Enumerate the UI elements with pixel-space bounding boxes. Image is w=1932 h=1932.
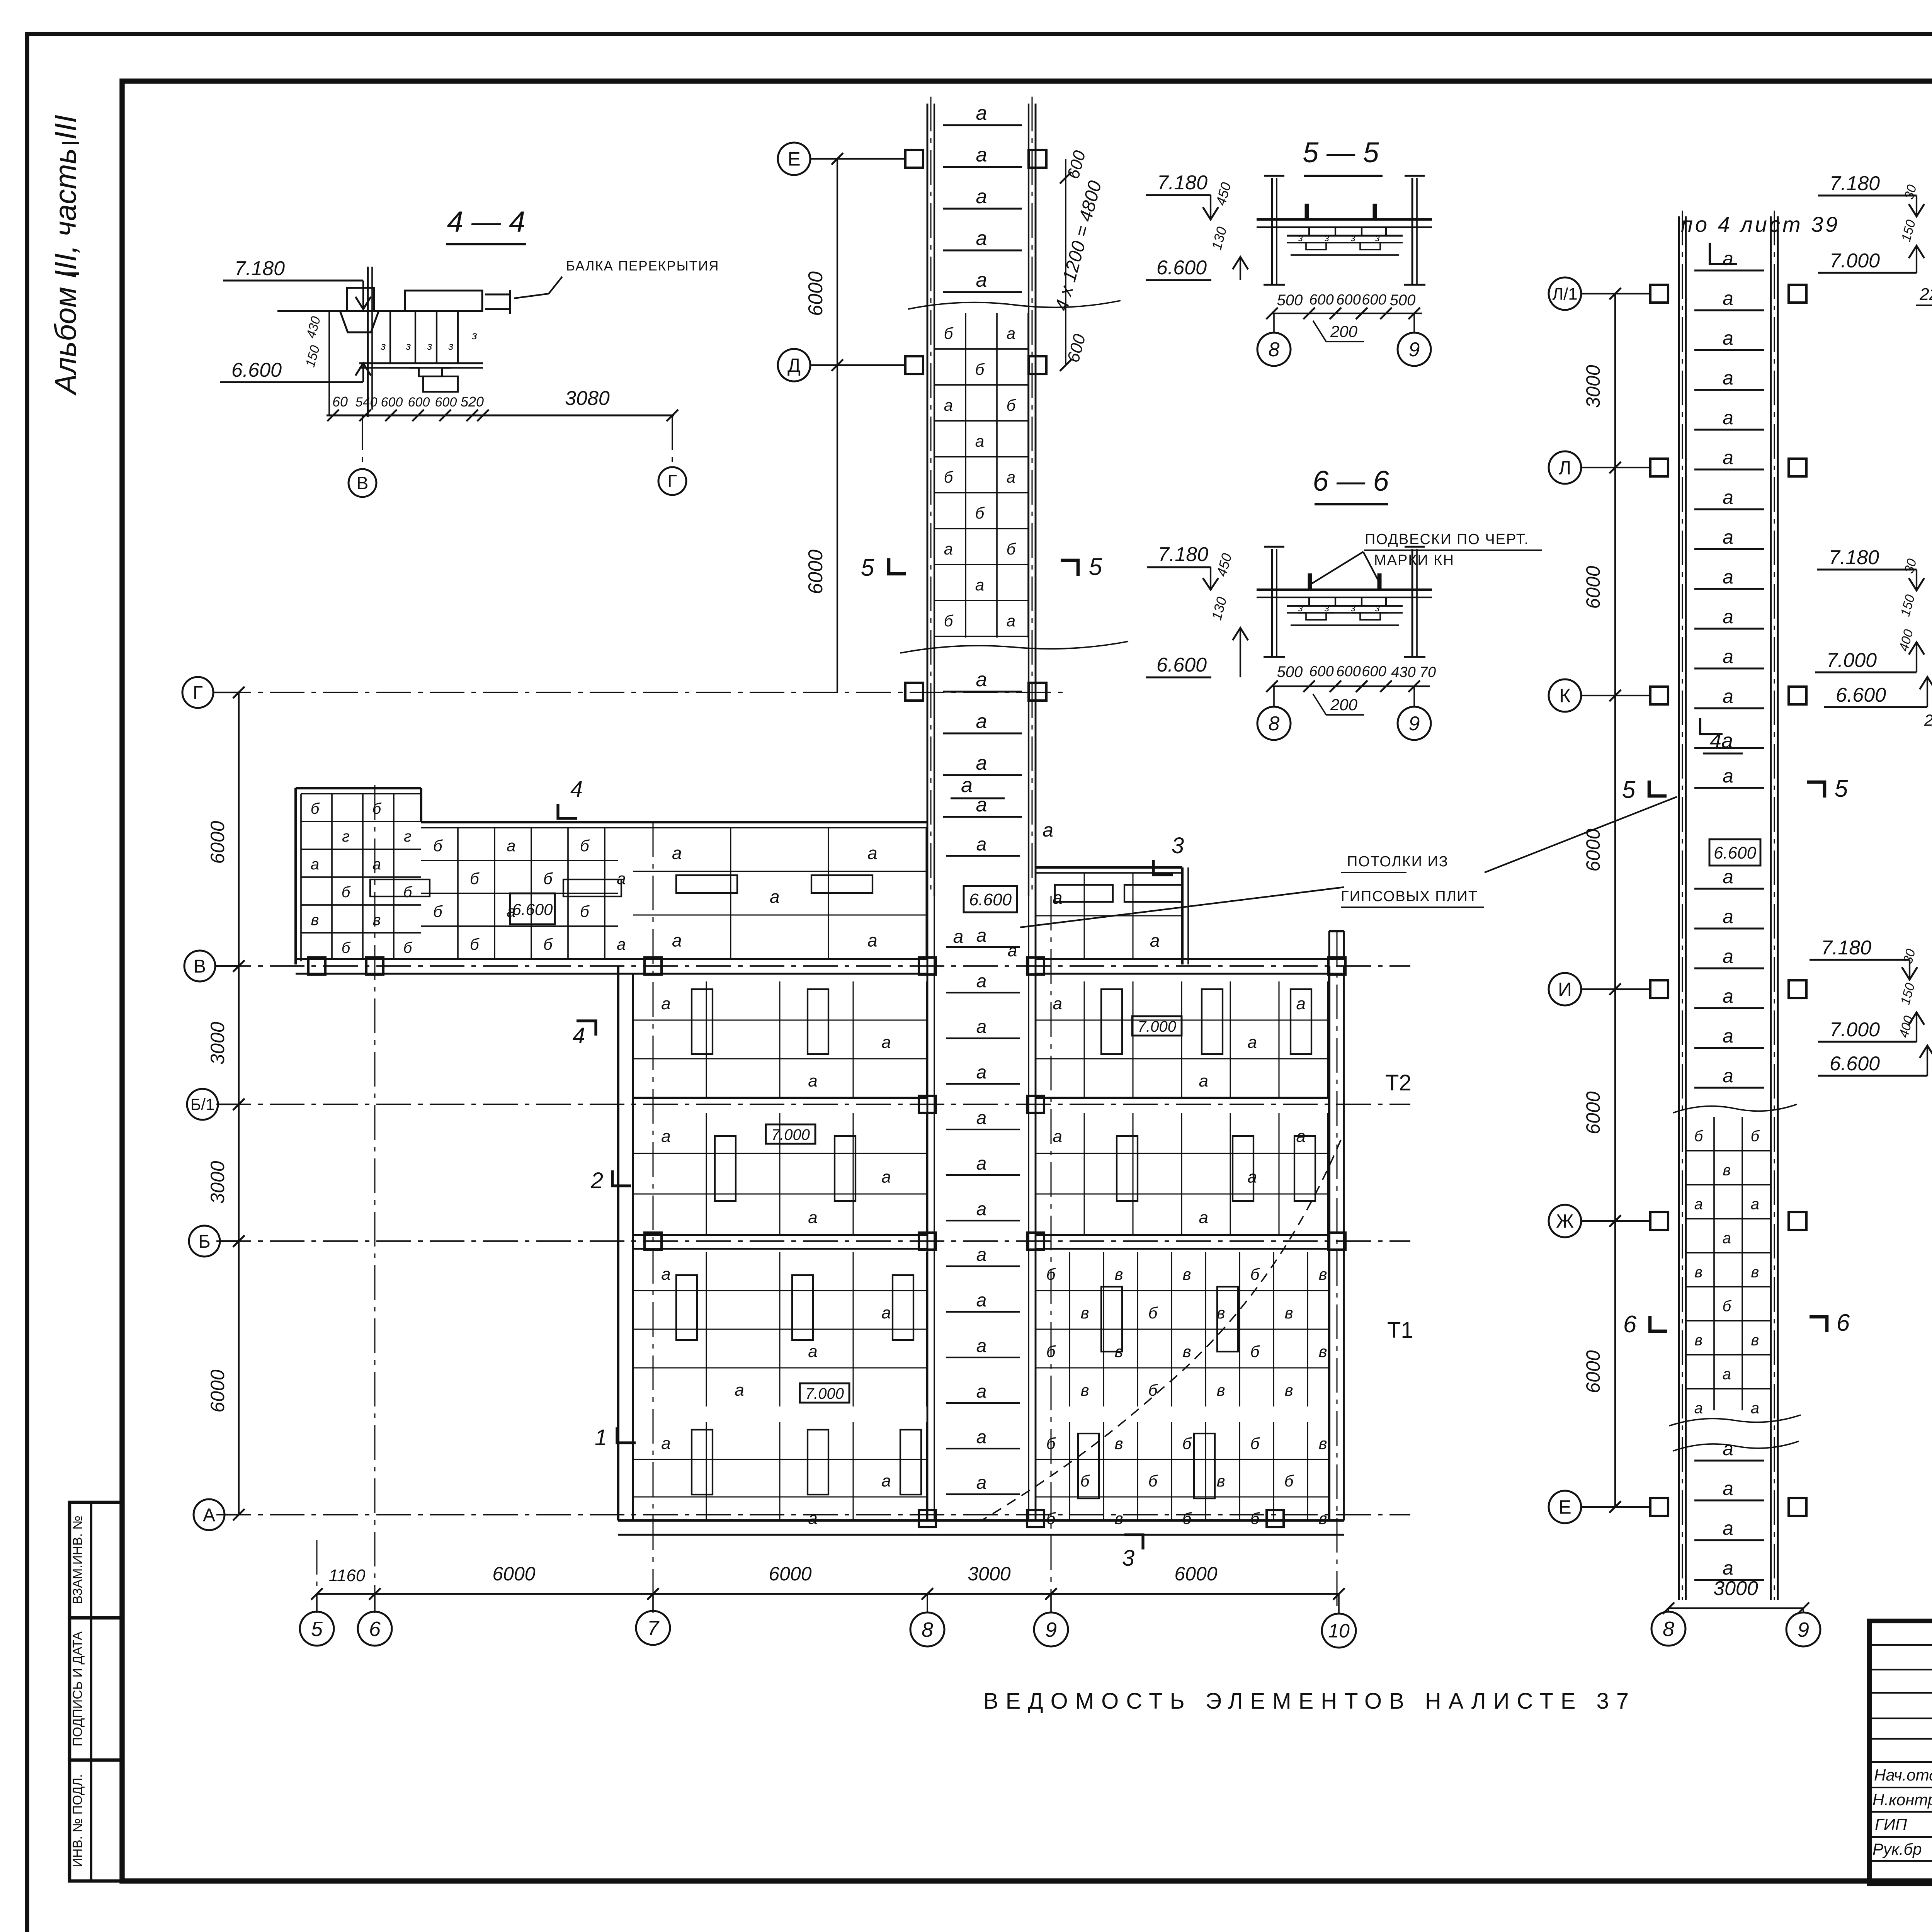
svg-text:по 4 лист 39: по 4 лист 39 bbox=[1681, 212, 1840, 236]
right corridor strip dense tile block bbox=[1669, 1104, 1801, 1426]
svg-text:220: 220 bbox=[1924, 711, 1932, 729]
svg-text:б: б bbox=[1148, 1304, 1158, 1322]
svg-text:6.600: 6.600 bbox=[1156, 257, 1207, 279]
plan room band bottom tiles bbox=[633, 1422, 1329, 1528]
svg-text:7.180: 7.180 bbox=[1158, 543, 1208, 566]
grid bubble Л bbox=[1549, 451, 1650, 484]
section 4-4 title bbox=[446, 206, 526, 244]
svg-text:Л: Л bbox=[1559, 457, 1571, 479]
plan upper-right wing outline bbox=[1036, 867, 1188, 964]
plan break line diagonal bbox=[981, 1140, 1341, 1520]
grid bubble И bbox=[1549, 973, 1650, 1005]
svg-text:600: 600 bbox=[435, 395, 457, 410]
section 4-4 grid bubble В bbox=[349, 415, 376, 497]
svg-text:600: 600 bbox=[1336, 292, 1361, 308]
svg-text:б: б bbox=[1046, 1265, 1056, 1283]
svg-text:в: в bbox=[1183, 1342, 1191, 1361]
svg-text:600: 600 bbox=[381, 395, 403, 410]
svg-text:а: а bbox=[1723, 985, 1733, 1007]
svg-text:а: а bbox=[867, 930, 878, 950]
svg-text:а: а bbox=[1694, 1196, 1703, 1213]
svg-text:а: а bbox=[1008, 941, 1017, 960]
svg-text:б: б bbox=[1182, 1509, 1192, 1527]
svg-text:а: а bbox=[1723, 367, 1733, 389]
svg-text:б: б bbox=[1148, 1381, 1158, 1399]
svg-text:в: в bbox=[311, 912, 319, 929]
section cut mark 6 right bbox=[1810, 1310, 1850, 1336]
svg-text:8: 8 bbox=[1269, 338, 1280, 361]
svg-text:а: а bbox=[808, 1208, 817, 1227]
svg-text:430: 430 bbox=[1391, 664, 1415, 680]
plan corridor letter a top bbox=[951, 774, 1005, 798]
plan left grid bubble А bbox=[194, 1499, 245, 1530]
plan column markers bbox=[308, 957, 1345, 1527]
svg-text:5: 5 bbox=[1622, 777, 1636, 803]
section 5-5 drawing bbox=[1208, 176, 1432, 285]
svg-text:г: г bbox=[404, 828, 412, 845]
svg-text:5: 5 bbox=[311, 1617, 323, 1641]
plan axis 10 vertical line bbox=[1336, 931, 1337, 1613]
svg-text:б: б bbox=[944, 324, 954, 342]
plan bottom wall bbox=[618, 1520, 1344, 1535]
label - Потолки из гипсовых плит bbox=[1020, 797, 1677, 927]
section cut mark 5 left on right strip bbox=[1622, 777, 1667, 803]
svg-text:а: а bbox=[1723, 1557, 1733, 1579]
svg-text:а: а bbox=[976, 925, 987, 946]
svg-text:а: а bbox=[1723, 327, 1733, 349]
plan ceiling slots bbox=[370, 879, 1315, 1498]
right strip column markers bbox=[1650, 285, 1806, 1516]
section 4-4 label - Балка перекрытия bbox=[514, 259, 719, 298]
svg-text:б: б bbox=[543, 935, 553, 953]
section 2-2 dimension row 1 bbox=[1924, 709, 1932, 774]
plan corridor tile rows bbox=[946, 834, 1020, 1494]
svg-text:Г: Г bbox=[668, 471, 677, 491]
svg-text:а: а bbox=[1723, 1230, 1731, 1247]
section 6-6 elevation 7.180 bbox=[1147, 543, 1235, 590]
plan axis 6 vertical line bbox=[374, 785, 375, 1613]
svg-text:а: а bbox=[976, 1427, 987, 1447]
plan section cut 2 right bbox=[1385, 1070, 1412, 1095]
svg-text:6000: 6000 bbox=[207, 1369, 228, 1412]
svg-text:в: в bbox=[1723, 1162, 1731, 1179]
right corridor strip walls bbox=[1679, 216, 1778, 1600]
svg-text:Г: Г bbox=[193, 683, 203, 703]
svg-text:б: б bbox=[1046, 1509, 1056, 1527]
svg-text:а: а bbox=[770, 886, 780, 906]
svg-text:а: а bbox=[867, 843, 878, 863]
svg-text:в: в bbox=[1319, 1434, 1327, 1452]
svg-text:в: в bbox=[1115, 1509, 1123, 1527]
svg-text:ПОТОЛКИ ИЗ: ПОТОЛКИ ИЗ bbox=[1347, 854, 1449, 870]
svg-text:б: б bbox=[1046, 1342, 1056, 1361]
svg-text:а: а bbox=[944, 540, 953, 558]
svg-text:6.600: 6.600 bbox=[969, 890, 1012, 909]
section 4-4 grid bubble Г bbox=[658, 415, 686, 495]
svg-text:б: б bbox=[433, 837, 443, 855]
svg-text:а: а bbox=[976, 1062, 987, 1083]
svg-text:8: 8 bbox=[1663, 1617, 1674, 1641]
svg-text:БАЛКА ПЕРЕКРЫТИЯ: БАЛКА ПЕРЕКРЫТИЯ bbox=[566, 259, 719, 274]
svg-text:а: а bbox=[1723, 685, 1733, 707]
section 4-4 drawing bbox=[277, 267, 510, 417]
svg-text:Ж: Ж bbox=[1556, 1211, 1574, 1232]
svg-text:10: 10 bbox=[1328, 1620, 1350, 1642]
svg-text:в: в bbox=[1217, 1472, 1225, 1490]
svg-text:9: 9 bbox=[1409, 713, 1420, 735]
svg-text:8: 8 bbox=[1269, 713, 1280, 735]
svg-text:Т2: Т2 bbox=[1385, 1070, 1412, 1095]
svg-text:а: а bbox=[976, 794, 987, 816]
section 5-5 grid bubble 9 bbox=[1398, 313, 1431, 366]
svg-text:3000: 3000 bbox=[207, 1022, 228, 1065]
svg-text:7.000: 7.000 bbox=[771, 1126, 810, 1143]
svg-text:б: б bbox=[1182, 1434, 1192, 1452]
svg-text:б: б bbox=[470, 935, 480, 953]
svg-text:б: б bbox=[311, 800, 320, 817]
svg-text:а: а bbox=[976, 1245, 987, 1265]
svg-text:а: а bbox=[976, 102, 987, 124]
svg-text:б: б bbox=[944, 468, 954, 486]
svg-text:3000: 3000 bbox=[207, 1161, 228, 1204]
svg-text:В: В bbox=[357, 473, 369, 493]
section 6-6 grid bubble 8 bbox=[1257, 686, 1291, 740]
section 1-1 elevation 7.180 bbox=[1818, 172, 1924, 216]
section cut mark 5 right bbox=[1061, 554, 1102, 580]
svg-text:в: в bbox=[1694, 1264, 1702, 1281]
svg-text:7.180: 7.180 bbox=[1821, 937, 1871, 959]
svg-text:а: а bbox=[1751, 1400, 1759, 1417]
svg-text:6000: 6000 bbox=[1582, 1091, 1604, 1134]
section 3-3 elevation 6.600 bbox=[1818, 1046, 1932, 1076]
svg-text:з: з bbox=[1350, 602, 1355, 614]
svg-text:з: з bbox=[380, 340, 386, 352]
section 2-2 elevation 7.180 bbox=[1817, 546, 1924, 590]
plan section cut 2 left bbox=[590, 1168, 631, 1193]
svg-text:в: в bbox=[1285, 1304, 1293, 1322]
section 6-6 grid bubble 9 bbox=[1398, 686, 1431, 740]
svg-text:Д: Д bbox=[787, 355, 801, 376]
grid bubble К bbox=[1549, 679, 1650, 712]
svg-text:а: а bbox=[1723, 906, 1733, 927]
plan corridor junction box 6.600 bbox=[953, 819, 1053, 960]
svg-text:а: а bbox=[1296, 994, 1305, 1013]
svg-text:1: 1 bbox=[595, 1425, 607, 1450]
svg-text:в: в bbox=[1694, 1332, 1702, 1349]
svg-text:б: б bbox=[1751, 1128, 1760, 1145]
plan bottom dimension row bbox=[311, 1563, 1345, 1600]
svg-text:а: а bbox=[976, 710, 987, 733]
top corridor strip dense tile block bbox=[900, 301, 1128, 653]
svg-text:6.600: 6.600 bbox=[1836, 684, 1886, 706]
plan room band Б/1-Б tiles bbox=[633, 1113, 1329, 1235]
svg-text:3: 3 bbox=[1122, 1546, 1134, 1571]
svg-text:ГИП: ГИП bbox=[1875, 1815, 1907, 1833]
section 6-6 elevation 6.600 bbox=[1146, 628, 1248, 677]
plan corridor vertical walls bbox=[927, 896, 1036, 1520]
svg-text:а: а bbox=[1007, 324, 1015, 342]
section 5-5 elevation 7.180 bbox=[1146, 172, 1234, 219]
svg-text:в: в bbox=[1081, 1381, 1089, 1399]
svg-text:б: б bbox=[1250, 1509, 1260, 1527]
top corridor strip axis lines bbox=[931, 97, 1032, 896]
svg-text:в: в bbox=[1319, 1265, 1327, 1283]
right strip grid bubble 9 bottom bbox=[1786, 1608, 1820, 1646]
svg-text:Е: Е bbox=[787, 148, 800, 170]
svg-text:а: а bbox=[976, 1199, 987, 1219]
svg-text:6: 6 bbox=[369, 1617, 381, 1641]
svg-text:б: б bbox=[372, 800, 382, 817]
plan left grid bubble Б/1 bbox=[187, 1089, 245, 1120]
section 4-4 elevation 6.600 bbox=[220, 359, 371, 382]
svg-text:б: б bbox=[1694, 1128, 1704, 1145]
right strip break line bbox=[1673, 1441, 1799, 1451]
section 6-6 drawing bbox=[1208, 547, 1432, 657]
svg-text:б: б bbox=[470, 869, 480, 888]
svg-text:б: б bbox=[342, 939, 351, 956]
svg-text:з: з bbox=[1324, 602, 1329, 614]
svg-text:а: а bbox=[507, 837, 515, 855]
svg-text:б: б bbox=[342, 884, 351, 901]
svg-text:а: а bbox=[1723, 447, 1733, 468]
svg-text:а: а bbox=[661, 1265, 670, 1284]
svg-text:ВЕДОМОСТЬ ЭЛЕМЕНТОВ НАЛИСТЕ: ВЕДОМОСТЬ ЭЛЕМЕНТОВ НАЛИСТЕ 37 bbox=[983, 1689, 1636, 1714]
top strip vertical dimension 6000 bbox=[804, 159, 837, 692]
svg-text:з: з bbox=[427, 340, 432, 352]
svg-text:ПОДПИСЬ И ДАТА: ПОДПИСЬ И ДАТА bbox=[70, 1631, 85, 1747]
svg-text:200: 200 bbox=[1330, 696, 1358, 714]
svg-text:а: а bbox=[976, 1473, 987, 1493]
svg-text:а: а bbox=[976, 834, 987, 855]
svg-text:а: а bbox=[975, 432, 984, 450]
svg-text:а: а bbox=[1247, 1168, 1257, 1187]
svg-text:6000: 6000 bbox=[207, 821, 228, 864]
section 4-4 dimension row bbox=[327, 387, 678, 421]
right strip bottom dimension 3000 bbox=[1663, 1577, 1809, 1614]
plan axis Б line bbox=[216, 1240, 1410, 1242]
svg-text:70: 70 bbox=[1420, 664, 1436, 680]
svg-text:а: а bbox=[1053, 1127, 1062, 1146]
svg-text:б: б bbox=[1046, 1434, 1056, 1452]
svg-text:6000: 6000 bbox=[1582, 828, 1604, 871]
svg-text:МАРКИ КН: МАРКИ КН bbox=[1374, 552, 1454, 568]
svg-text:в: в bbox=[1319, 1342, 1327, 1361]
top corridor strip walls bbox=[927, 104, 1036, 896]
svg-text:а: а bbox=[976, 752, 987, 774]
svg-text:7.000: 7.000 bbox=[1138, 1018, 1176, 1035]
svg-text:а: а bbox=[1247, 1033, 1257, 1052]
svg-text:а: а bbox=[976, 227, 987, 250]
svg-text:7.180: 7.180 bbox=[1829, 546, 1879, 569]
svg-text:з: з bbox=[405, 340, 411, 352]
svg-text:а: а bbox=[881, 1303, 891, 1322]
svg-text:б: б bbox=[1250, 1265, 1260, 1283]
svg-text:6000: 6000 bbox=[804, 271, 827, 316]
svg-text:60: 60 bbox=[332, 394, 348, 410]
section 2-2 elevation 6.600 bbox=[1824, 677, 1932, 707]
note - Ведомость элементов на листе 37 bbox=[983, 1689, 1636, 1714]
svg-text:а: а bbox=[1723, 866, 1733, 888]
svg-text:а: а bbox=[976, 1381, 987, 1402]
section 3-3 elevation 7.180 bbox=[1810, 937, 1918, 980]
svg-text:3: 3 bbox=[1172, 833, 1184, 858]
svg-text:а: а bbox=[976, 185, 987, 208]
svg-text:а: а bbox=[311, 856, 319, 873]
svg-text:б: б bbox=[580, 837, 590, 855]
plan main walls left and right bbox=[618, 966, 1344, 1520]
svg-text:а: а bbox=[372, 856, 381, 873]
svg-text:600: 600 bbox=[1309, 292, 1333, 308]
plan elevation box 7.000 first bbox=[1132, 1016, 1182, 1036]
svg-text:6000: 6000 bbox=[1582, 566, 1604, 609]
section 6-6 label - Подвески по черт Марки КН bbox=[1311, 531, 1542, 584]
svg-text:7.000: 7.000 bbox=[805, 1385, 844, 1402]
top corridor strip tile rows lower bbox=[943, 668, 1022, 817]
left margin stamp boxes bbox=[70, 1502, 122, 1881]
svg-text:6000: 6000 bbox=[1174, 1563, 1217, 1585]
svg-text:а: а bbox=[1723, 1438, 1733, 1459]
svg-text:Б/1: Б/1 bbox=[190, 1095, 215, 1114]
svg-text:а: а bbox=[1723, 566, 1733, 588]
svg-text:500: 500 bbox=[1390, 292, 1416, 309]
svg-text:200: 200 bbox=[1330, 322, 1358, 340]
svg-text:4: 4 bbox=[570, 777, 583, 802]
svg-text:6 — 6: 6 — 6 bbox=[1313, 465, 1389, 497]
svg-text:в: в bbox=[373, 912, 381, 929]
plan upper-left wing outline bbox=[296, 788, 927, 964]
plan left grid bubble Г bbox=[182, 677, 245, 708]
label - по 4 лист 39 bbox=[1681, 212, 1840, 264]
plan axis Г line bbox=[216, 692, 1066, 693]
svg-text:а: а bbox=[808, 1071, 817, 1090]
svg-text:а: а bbox=[976, 1017, 987, 1037]
svg-text:5: 5 bbox=[861, 554, 874, 581]
svg-text:а: а bbox=[976, 1336, 987, 1356]
svg-text:б: б bbox=[403, 939, 413, 956]
plan grid bubble 7 bbox=[636, 1594, 670, 1645]
plan band over В right part rows bbox=[633, 828, 927, 959]
top strip right dimension 4x1200=4800 bbox=[1051, 148, 1106, 371]
right strip elevation box 6.600 bbox=[1709, 839, 1760, 866]
svg-text:а: а bbox=[1723, 1065, 1733, 1087]
svg-text:6.600: 6.600 bbox=[512, 900, 553, 918]
plan grid bubble 5 bbox=[300, 1594, 334, 1646]
svg-text:в: в bbox=[1319, 1509, 1327, 1527]
album label - Альбом III часть III bbox=[48, 115, 82, 396]
svg-text:в: в bbox=[1751, 1264, 1759, 1281]
grid bubble Е top bbox=[778, 143, 905, 175]
svg-text:б: б bbox=[975, 504, 985, 522]
section 2-2 elevation 7.000 bbox=[1815, 593, 1924, 672]
section 4-4 elevation 7.180 bbox=[223, 257, 371, 309]
svg-text:а: а bbox=[1723, 248, 1733, 269]
svg-text:а: а bbox=[1723, 486, 1733, 508]
svg-text:б: б bbox=[1284, 1472, 1294, 1490]
grid bubble Л/1 bbox=[1549, 277, 1650, 310]
svg-text:7.180: 7.180 bbox=[1830, 172, 1880, 195]
svg-text:в: в bbox=[1751, 1332, 1759, 1349]
svg-text:б: б bbox=[1723, 1298, 1732, 1315]
svg-text:а: а bbox=[1007, 612, 1015, 630]
svg-text:б: б bbox=[944, 612, 954, 630]
svg-text:600: 600 bbox=[1362, 292, 1386, 308]
plan upper right wing tiles bbox=[1036, 873, 1182, 959]
section 6-6 title bbox=[1313, 465, 1389, 504]
right corridor strip tile rows middle bbox=[1694, 866, 1764, 1088]
svg-text:ИНВ. № ПОДЛ.: ИНВ. № ПОДЛ. bbox=[70, 1774, 85, 1867]
section cut mark 5 right on right strip bbox=[1807, 776, 1848, 802]
plan room band В-Б/1 right tiles bbox=[1036, 981, 1329, 1098]
svg-text:Альбом III, часть III: Альбом III, часть III bbox=[48, 115, 82, 396]
svg-text:6.600: 6.600 bbox=[231, 359, 282, 381]
svg-text:а: а bbox=[661, 994, 670, 1013]
svg-text:6.600: 6.600 bbox=[1156, 654, 1207, 676]
svg-text:а: а bbox=[808, 1509, 817, 1528]
svg-text:б: б bbox=[433, 902, 443, 920]
plan left grid bubble Б bbox=[189, 1226, 245, 1257]
svg-text:5 — 5: 5 — 5 bbox=[1303, 136, 1379, 168]
svg-text:а: а bbox=[1723, 1517, 1733, 1539]
svg-text:з: з bbox=[1350, 232, 1355, 243]
section 5-5 dimension row bbox=[1266, 292, 1422, 342]
svg-text:5: 5 bbox=[1089, 554, 1102, 580]
svg-text:з: з bbox=[1375, 232, 1380, 243]
svg-text:3000: 3000 bbox=[1582, 365, 1604, 408]
title block main frame bbox=[1869, 1621, 1932, 1884]
svg-text:а: а bbox=[1751, 1196, 1759, 1213]
svg-text:а: а bbox=[976, 269, 987, 291]
section 5-5 grid bubble 8 bbox=[1257, 313, 1291, 366]
svg-text:а: а bbox=[1723, 526, 1733, 548]
plan section cut 4 top bbox=[558, 777, 583, 818]
section 3-3 elevation 7.000 bbox=[1818, 981, 1924, 1042]
plan axis 9 vertical line bbox=[1050, 896, 1051, 1613]
svg-text:а: а bbox=[661, 1434, 670, 1453]
right strip label 4а bbox=[1700, 718, 1743, 753]
svg-text:в: в bbox=[1081, 1304, 1089, 1322]
plan axis10 top stub bbox=[1329, 931, 1344, 959]
svg-text:А: А bbox=[203, 1505, 215, 1526]
svg-text:И: И bbox=[1558, 979, 1572, 1000]
plan wall along axis Б/1 bbox=[633, 1097, 1329, 1099]
plan elevation box 7.000 second bbox=[766, 1124, 815, 1144]
svg-text:в: в bbox=[1115, 1265, 1123, 1283]
svg-text:а: а bbox=[1199, 1208, 1208, 1227]
svg-text:7.180: 7.180 bbox=[1157, 172, 1207, 194]
svg-text:3000: 3000 bbox=[968, 1563, 1010, 1585]
plan axis 5 vertical line bbox=[316, 1540, 317, 1613]
grid bubble Ж bbox=[1549, 1205, 1650, 1237]
svg-text:3080: 3080 bbox=[565, 387, 610, 410]
grid bubble Д top bbox=[778, 349, 905, 381]
svg-text:а: а bbox=[976, 144, 987, 166]
svg-text:а: а bbox=[976, 1290, 987, 1311]
svg-text:б: б bbox=[1007, 396, 1016, 414]
svg-text:7: 7 bbox=[647, 1617, 660, 1640]
svg-text:6: 6 bbox=[1623, 1311, 1637, 1338]
svg-text:5: 5 bbox=[1835, 776, 1848, 802]
svg-text:а: а bbox=[1199, 1071, 1208, 1090]
plan grid bubble 6 bbox=[358, 1594, 392, 1646]
svg-text:а: а bbox=[881, 1168, 891, 1187]
svg-text:9: 9 bbox=[1045, 1618, 1057, 1641]
svg-text:ВЗАМ.ИНВ. №: ВЗАМ.ИНВ. № bbox=[70, 1515, 85, 1604]
section 1-1 dims 220 600 left bbox=[1916, 285, 1932, 305]
plan wall along axis Б bbox=[633, 1235, 1329, 1249]
svg-text:4а: 4а bbox=[1710, 729, 1733, 752]
section 5-5 elevation 6.600 bbox=[1146, 257, 1248, 280]
svg-text:Нач.отд: Нач.отд bbox=[1874, 1766, 1932, 1784]
